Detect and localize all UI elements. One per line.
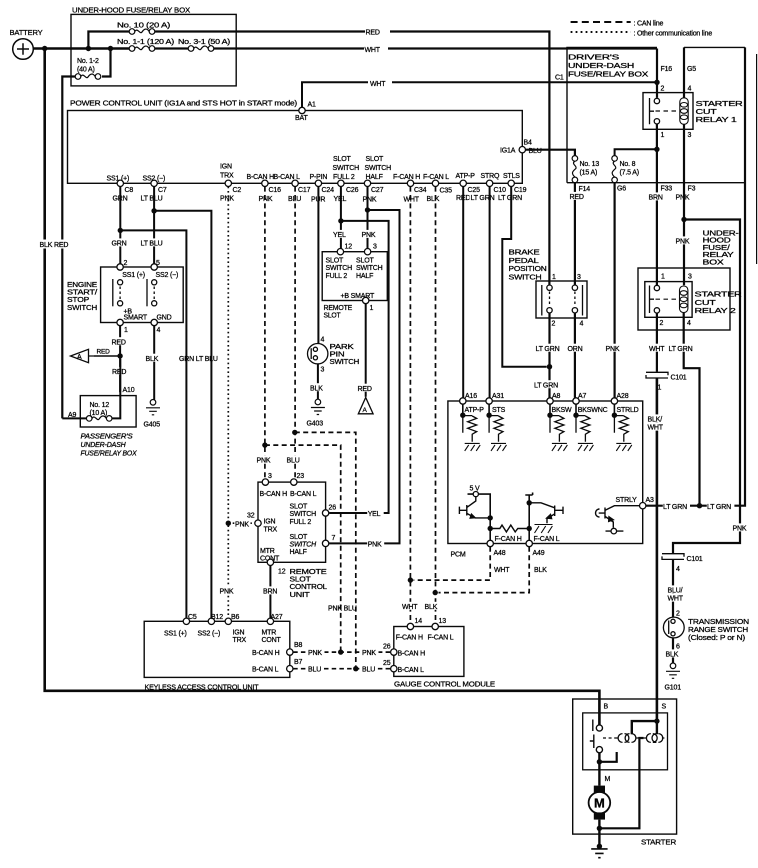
svg-text:A8: A8	[552, 393, 560, 400]
power control unit box	[68, 111, 523, 184]
svg-text:26: 26	[329, 504, 337, 511]
svg-text:C34: C34	[414, 187, 427, 194]
wire ORN brake pin4 to PCM A7	[574, 313, 576, 397]
svg-text:WHT: WHT	[648, 425, 664, 432]
legend CAN line	[571, 21, 631, 23]
wire BLK A49 to F-CAN L bus	[439, 547, 530, 593]
svg-text:RED: RED	[366, 29, 380, 36]
starter contact	[590, 720, 603, 753]
svg-text:STRLY: STRLY	[616, 497, 638, 504]
wire F14 RED to brake switch pin 1/3	[574, 183, 576, 285]
svg-text:BLK: BLK	[427, 196, 440, 203]
svg-text:LT GRN: LT GRN	[536, 346, 560, 353]
ground G405	[146, 400, 160, 415]
engine switch contact SS1	[113, 279, 123, 306]
svg-text:ENGINE: ENGINE	[67, 282, 98, 289]
svg-text:UNDER-HOOD FUSE/RELAY BOX: UNDER-HOOD FUSE/RELAY BOX	[72, 6, 190, 15]
starter motor M	[594, 786, 605, 793]
border artifact right edge	[756, 54, 758, 264]
svg-text:C7: C7	[158, 187, 167, 194]
svg-text:BLK/: BLK/	[648, 417, 663, 424]
connector A arrow left	[71, 349, 95, 362]
svg-text:No. 1-2: No. 1-2	[77, 58, 99, 65]
resistor network BKSW	[549, 404, 551, 415]
svg-text:SWITCH: SWITCH	[356, 265, 383, 272]
wire GRN C8 to engine switch	[119, 187, 121, 264]
svg-text:TRX: TRX	[220, 173, 234, 180]
svg-text:STARTER: STARTER	[695, 292, 742, 299]
fuse No. 3-1 (50 A)	[188, 46, 214, 52]
wire PNK branch to right column	[683, 183, 685, 286]
svg-text:RED: RED	[97, 349, 111, 356]
svg-text:S: S	[662, 703, 667, 710]
under-hood fuse/relay box	[71, 14, 236, 86]
svg-text:1: 1	[124, 327, 128, 334]
wire BLK/WHT to starter S	[656, 378, 659, 721]
svg-text:B8: B8	[294, 642, 302, 649]
engine start/stop switch box	[101, 267, 184, 323]
transistor Q3 STRLY	[596, 506, 640, 528]
svg-text:TRX: TRX	[233, 637, 247, 644]
wire RED row1 to starter-cut area	[155, 32, 549, 285]
svg-text:SS2 (−): SS2 (−)	[143, 176, 166, 183]
svg-text:STLS: STLS	[503, 173, 520, 180]
svg-text:C27: C27	[371, 187, 384, 194]
svg-text:PNK: PNK	[368, 541, 382, 548]
svg-text:ATP-P: ATP-P	[465, 407, 485, 414]
svg-text:No. 12: No. 12	[90, 402, 110, 409]
wire LT GRN C19/STLS jog to brake node	[502, 187, 546, 367]
svg-text:SLOT: SLOT	[333, 156, 351, 163]
svg-text:MTR: MTR	[260, 548, 275, 555]
svg-text:B-CAN H: B-CAN H	[247, 174, 275, 181]
svg-text:F14: F14	[579, 186, 591, 193]
svg-text:B7: B7	[294, 659, 302, 666]
wire YEL C26 to slot switch full 2	[340, 187, 342, 249]
svg-text:SS1 (+): SS1 (+)	[107, 176, 130, 183]
svg-text:LT GRN: LT GRN	[498, 195, 522, 202]
svg-text:BLU/: BLU/	[668, 588, 683, 595]
svg-text:A7: A7	[578, 393, 586, 400]
wire BRN remote pin12 to keyless A27	[269, 566, 271, 618]
svg-text:BLK RED: BLK RED	[40, 242, 69, 249]
svg-text:GAUGE CONTROL MODULE: GAUGE CONTROL MODULE	[394, 680, 495, 689]
connector C101 pin 1	[646, 372, 668, 378]
svg-text:F-CAN L: F-CAN L	[428, 634, 454, 641]
svg-text:IG1A: IG1A	[500, 147, 516, 154]
remote slot control unit box	[258, 482, 326, 562]
svg-text:RED: RED	[112, 369, 126, 376]
wire lower contact to motor	[598, 753, 600, 786]
relay 2 contact	[650, 285, 660, 313]
svg-text:13: 13	[439, 618, 447, 625]
svg-text:CUT: CUT	[695, 300, 717, 307]
svg-text:G5: G5	[687, 66, 696, 73]
wire BLU from IG1A to fuse 13	[526, 150, 575, 156]
svg-text:SS1 (+): SS1 (+)	[164, 630, 187, 637]
svg-text:FULL 2: FULL 2	[290, 519, 312, 526]
svg-text:RED: RED	[112, 339, 126, 346]
svg-text:C17: C17	[298, 187, 311, 194]
PCM box	[448, 401, 643, 544]
svg-text:F-CAN L: F-CAN L	[534, 536, 560, 543]
svg-text:SLOT: SLOT	[326, 258, 344, 265]
wire S to solenoid coils	[632, 721, 657, 734]
wire WHT row2	[155, 47, 657, 49]
svg-text:STOP: STOP	[67, 297, 90, 304]
wire riser to No.10 row	[88, 32, 129, 49]
svg-text:3: 3	[577, 274, 581, 281]
svg-text:SMART: SMART	[124, 314, 148, 321]
wire LT GRN row and riser to relay coils	[646, 47, 745, 505]
gauge control module box	[394, 627, 464, 677]
svg-text:STRQ: STRQ	[481, 173, 500, 180]
starter ground	[597, 844, 602, 849]
svg-text:UNDER-DASH: UNDER-DASH	[568, 63, 634, 70]
fuse No. 8 (7.5 A)	[615, 149, 657, 155]
svg-text:GRN: GRN	[112, 241, 127, 248]
svg-text:B-CAN L: B-CAN L	[290, 491, 317, 498]
under-hood fuse/relay box 2	[638, 268, 730, 330]
svg-text:STARTER: STARTER	[696, 101, 743, 108]
svg-text:BOX: BOX	[703, 259, 725, 266]
svg-text:PNK: PNK	[257, 458, 271, 465]
PCM bottom pins A48 A49	[487, 540, 493, 546]
wire RED C25/ATP-P to PCM A16	[462, 187, 464, 398]
svg-text:YEL: YEL	[333, 232, 346, 239]
svg-text:RED: RED	[358, 386, 372, 393]
driver's under-dash fuse/relay box	[567, 47, 745, 182]
svg-text:1: 1	[661, 132, 665, 139]
wire B-CAN L dashed C17	[294, 187, 296, 479]
svg-text:25: 25	[383, 660, 391, 667]
wire WHT A48 to F-CAN H bus	[414, 547, 491, 580]
svg-text:BATTERY: BATTERY	[10, 28, 43, 37]
svg-text:DRIVER'S: DRIVER'S	[568, 55, 620, 62]
svg-text:3: 3	[688, 132, 692, 139]
relay 1 contact	[650, 98, 660, 124]
svg-text:BLK: BLK	[310, 385, 323, 392]
svg-text:3: 3	[268, 473, 272, 480]
node row2 at x110	[108, 46, 113, 51]
svg-text:F16: F16	[661, 66, 673, 73]
svg-text:SS2 (−): SS2 (−)	[198, 630, 221, 637]
svg-text:3: 3	[321, 367, 325, 374]
svg-text:SWITCH: SWITCH	[290, 511, 317, 518]
svg-text:No. 13: No. 13	[580, 161, 600, 168]
svg-text:3: 3	[688, 274, 692, 281]
starter assembly box	[573, 699, 677, 834]
svg-text:4: 4	[157, 327, 161, 334]
svg-text:23: 23	[297, 473, 305, 480]
svg-text:GND: GND	[157, 314, 172, 321]
wire RED engine switch pin1 to A10	[119, 326, 121, 393]
svg-text:BLK: BLK	[666, 652, 679, 659]
svg-text:IGN: IGN	[264, 519, 276, 526]
svg-text:FUSE/RELAY BOX: FUSE/RELAY BOX	[568, 72, 649, 79]
svg-text:2: 2	[124, 260, 128, 267]
svg-text:2: 2	[660, 320, 664, 327]
node C1 junction WHT	[654, 80, 659, 85]
svg-text:LT GRN: LT GRN	[471, 195, 495, 202]
svg-text:BAT: BAT	[295, 115, 308, 122]
svg-text:SWITCH: SWITCH	[365, 165, 392, 172]
svg-text:C24: C24	[322, 187, 335, 194]
wire motor to ground	[598, 820, 600, 846]
svg-text:12: 12	[345, 243, 353, 250]
svg-text:SWITCH: SWITCH	[67, 305, 97, 312]
svg-text:HALF: HALF	[366, 174, 383, 181]
transmission range switch	[663, 617, 684, 638]
svg-text:BLK: BLK	[534, 567, 547, 574]
resistor network STRLD	[613, 404, 615, 415]
node battery junction	[42, 46, 47, 51]
svg-text:B-CAN L: B-CAN L	[252, 667, 279, 674]
svg-text:RED: RED	[570, 194, 584, 201]
svg-text:B12: B12	[211, 614, 223, 621]
svg-text:No. 1-1 (120 A): No. 1-1 (120 A)	[117, 39, 174, 46]
svg-text:P-PIN: P-PIN	[310, 174, 328, 181]
wire WHT row3 from A1	[302, 82, 657, 107]
pin A3 STRLY	[640, 503, 646, 509]
svg-text:STS: STS	[492, 407, 506, 414]
svg-text:F3: F3	[688, 186, 696, 193]
svg-text:SLOT: SLOT	[290, 577, 312, 584]
svg-text:PEDAL: PEDAL	[509, 258, 539, 265]
svg-text:WHT: WHT	[404, 196, 420, 203]
svg-text:PNK: PNK	[220, 195, 234, 202]
svg-text:KEYLESS ACCESS CONTROL UNIT: KEYLESS ACCESS CONTROL UNIT	[145, 682, 260, 691]
brake pedal position switch	[536, 281, 587, 318]
svg-text:PCM: PCM	[451, 551, 466, 558]
relay 1 coil	[683, 47, 685, 182]
svg-text:32: 32	[247, 512, 255, 519]
svg-text:SWITCH: SWITCH	[330, 359, 360, 366]
wire IGN TRX dotted C2 to keyless B6	[227, 187, 229, 618]
svg-text:UNDER-: UNDER-	[703, 231, 740, 238]
svg-text:LT GRN: LT GRN	[534, 382, 558, 389]
svg-text:No. 8: No. 8	[620, 161, 636, 168]
svg-text:SWITCH: SWITCH	[509, 274, 542, 281]
relay 2 coil	[680, 286, 688, 313]
svg-text:A31: A31	[492, 393, 504, 400]
svg-text:WHT: WHT	[668, 596, 684, 603]
svg-text:C8: C8	[125, 187, 134, 194]
fuse No. 10 (20 A)	[129, 29, 155, 35]
svg-text:PASSENGER'S: PASSENGER'S	[81, 434, 134, 441]
svg-text:PNK: PNK	[676, 239, 690, 246]
svg-text:FUSE/: FUSE/	[703, 245, 730, 252]
svg-text:B-CAN L: B-CAN L	[398, 667, 425, 674]
svg-text:26: 26	[383, 644, 391, 651]
svg-text:WHT: WHT	[370, 81, 386, 88]
wire F-CAN L dashed C35 to gauge	[435, 187, 437, 624]
svg-text:PNK: PNK	[733, 526, 747, 533]
wire color labels under pins	[112, 193, 129, 201]
svg-text:SWITCH: SWITCH	[333, 165, 360, 172]
svg-text:A27: A27	[271, 614, 283, 621]
svg-text:CONTROL: CONTROL	[290, 584, 328, 591]
svg-text:PNK: PNK	[362, 650, 376, 657]
svg-text:ORN: ORN	[568, 346, 583, 353]
svg-text:TRX: TRX	[264, 526, 278, 533]
svg-text:PNK: PNK	[606, 346, 620, 353]
svg-text:STRLD: STRLD	[617, 407, 639, 414]
svg-text:PARK: PARK	[330, 344, 355, 351]
svg-text:START/: START/	[67, 290, 97, 297]
svg-text:B: B	[604, 703, 609, 710]
svg-text:WHT: WHT	[365, 47, 381, 54]
svg-text:SWITCH: SWITCH	[326, 265, 353, 272]
svg-text:WHT: WHT	[402, 604, 418, 611]
PCM top pins	[460, 398, 466, 404]
engine switch contact SS2	[147, 279, 157, 306]
wire RED slot pin 1 to connector A	[365, 304, 367, 397]
svg-text:STARTER: STARTER	[641, 837, 677, 846]
svg-text:FUSE/RELAY BOX: FUSE/RELAY BOX	[81, 451, 137, 458]
pin IG1A B4	[519, 147, 525, 153]
svg-text:HALF: HALF	[290, 549, 307, 556]
svg-text:RELAY 1: RELAY 1	[696, 117, 737, 124]
svg-text:1: 1	[552, 274, 556, 281]
svg-text:PNK BLU: PNK BLU	[328, 605, 357, 612]
svg-text:C2: C2	[233, 187, 242, 194]
svg-text:MTR: MTR	[262, 630, 277, 637]
svg-text:IGN: IGN	[233, 630, 245, 637]
svg-text:7: 7	[332, 535, 336, 542]
wire relay2 pin2 WHT to C101	[656, 313, 658, 372]
svg-text:BLK: BLK	[425, 604, 438, 611]
svg-text:BRAKE: BRAKE	[509, 250, 541, 257]
svg-text:TRANSMISSION: TRANSMISSION	[688, 619, 749, 626]
resistor F-CAN termination	[488, 526, 493, 531]
svg-text:IGN: IGN	[220, 164, 232, 171]
svg-text:C101: C101	[687, 556, 703, 563]
svg-text:PNK: PNK	[308, 650, 322, 657]
svg-text:No. 3-1 (50 A): No. 3-1 (50 A)	[178, 39, 230, 46]
svg-text:A1: A1	[308, 102, 316, 109]
node fuse8 branch	[654, 147, 659, 152]
svg-text:RELAY 2: RELAY 2	[695, 308, 736, 315]
svg-text:FULL 2: FULL 2	[326, 273, 348, 280]
svg-text:A49: A49	[533, 550, 545, 557]
svg-text:REMOTE: REMOTE	[290, 569, 328, 576]
svg-text:C101: C101	[671, 375, 687, 382]
svg-text:2: 2	[676, 611, 680, 618]
svg-text:4: 4	[321, 336, 325, 343]
fuse No. 12 (10 A)	[86, 416, 112, 422]
svg-text:YEL: YEL	[368, 511, 381, 518]
svg-text:F-CAN H: F-CAN H	[495, 536, 522, 543]
wire BLU/WHT to transmission range switch	[672, 560, 674, 618]
wire motor return loop	[599, 738, 643, 828]
svg-text:LT GRN: LT GRN	[669, 346, 693, 353]
wire F-CAN H dashed C34 to gauge	[409, 187, 411, 624]
starter solenoid box	[583, 713, 668, 770]
svg-text:12: 12	[278, 568, 286, 575]
svg-text:PNK: PNK	[220, 589, 234, 596]
ground G101	[666, 663, 680, 678]
starter cut relay 2 box	[645, 282, 692, 318]
svg-text:A: A	[77, 354, 82, 361]
svg-text:F-CAN H: F-CAN H	[393, 174, 420, 181]
svg-text:UNDER-DASH: UNDER-DASH	[81, 442, 127, 449]
node row2 at x88	[86, 46, 91, 51]
svg-text:BRN: BRN	[649, 195, 663, 202]
starter cut relay 1 box	[643, 93, 693, 130]
svg-text:G6: G6	[617, 186, 626, 193]
svg-text:POSITION: POSITION	[509, 266, 547, 273]
svg-text:C35: C35	[440, 187, 453, 194]
svg-text:SLOT: SLOT	[324, 312, 342, 319]
svg-text:SS1 (+): SS1 (+)	[122, 272, 145, 279]
svg-text:1: 1	[370, 305, 374, 312]
svg-text:A10: A10	[123, 387, 135, 394]
svg-text:LT GRN: LT GRN	[707, 504, 731, 511]
slot switch assembly box	[322, 252, 387, 301]
svg-text:UNIT: UNIT	[290, 592, 311, 599]
svg-text:PNK: PNK	[362, 232, 376, 239]
svg-text:2: 2	[661, 86, 665, 93]
svg-text:G403: G403	[307, 420, 324, 427]
battery	[13, 39, 34, 60]
resistor network ATP-P	[462, 404, 464, 415]
svg-text:1: 1	[661, 274, 665, 281]
svg-text:CONT: CONT	[262, 637, 282, 644]
wire P-PIN PUR to park pin switch	[317, 187, 319, 344]
svg-text:HALF: HALF	[356, 273, 373, 280]
svg-text:SS2 (−): SS2 (−)	[156, 272, 179, 279]
resistor network BKSWNC	[575, 404, 577, 415]
wire LT BLU C7 to engine switch	[153, 187, 155, 264]
svg-text:F-CAN L: F-CAN L	[423, 174, 449, 181]
wire G6 PNK to PCM A28	[613, 183, 615, 398]
svg-text:: CAN line: : CAN line	[634, 21, 664, 28]
svg-text:GRN LT BLU: GRN LT BLU	[179, 356, 218, 363]
node S terminal	[654, 718, 659, 723]
svg-text:WHT: WHT	[494, 567, 510, 574]
label BLK RED	[39, 240, 72, 249]
wire PNK C27 to slot switch half	[367, 187, 369, 249]
svg-text:PIN: PIN	[330, 352, 345, 359]
svg-text:BLU: BLU	[362, 667, 375, 674]
svg-text:C26: C26	[346, 187, 359, 194]
svg-text:CUT: CUT	[696, 109, 718, 116]
resistor network STS	[488, 404, 490, 415]
connector A arrow up	[358, 398, 373, 414]
wire BLK engine switch pin4 to G405	[153, 326, 155, 400]
ground G403	[311, 399, 325, 414]
legend other communication line	[571, 31, 631, 33]
svg-text:SLOT: SLOT	[356, 258, 374, 265]
transistor Q2 F-CAN L driver	[525, 493, 532, 542]
svg-text:RANGE SWITCH: RANGE SWITCH	[688, 627, 748, 634]
svg-text:B-CAN H: B-CAN H	[260, 491, 288, 498]
svg-text:(40 A): (40 A)	[77, 67, 95, 74]
svg-text:B4: B4	[524, 140, 532, 147]
passenger's under-dash fuse/relay box	[80, 396, 136, 427]
svg-text:2: 2	[552, 321, 556, 328]
svg-text:3: 3	[373, 243, 377, 250]
solenoid coil windings	[615, 734, 664, 743]
svg-text:: Other communication line: : Other communication line	[634, 31, 713, 38]
keyless access control unit box	[144, 621, 290, 677]
svg-text:(7.5 A): (7.5 A)	[620, 170, 639, 177]
svg-text:F33: F33	[661, 186, 673, 193]
svg-text:G101: G101	[665, 685, 682, 692]
transistor Q1 F-CAN H driver	[459, 497, 490, 518]
svg-text:B-CAN L: B-CAN L	[274, 174, 301, 181]
